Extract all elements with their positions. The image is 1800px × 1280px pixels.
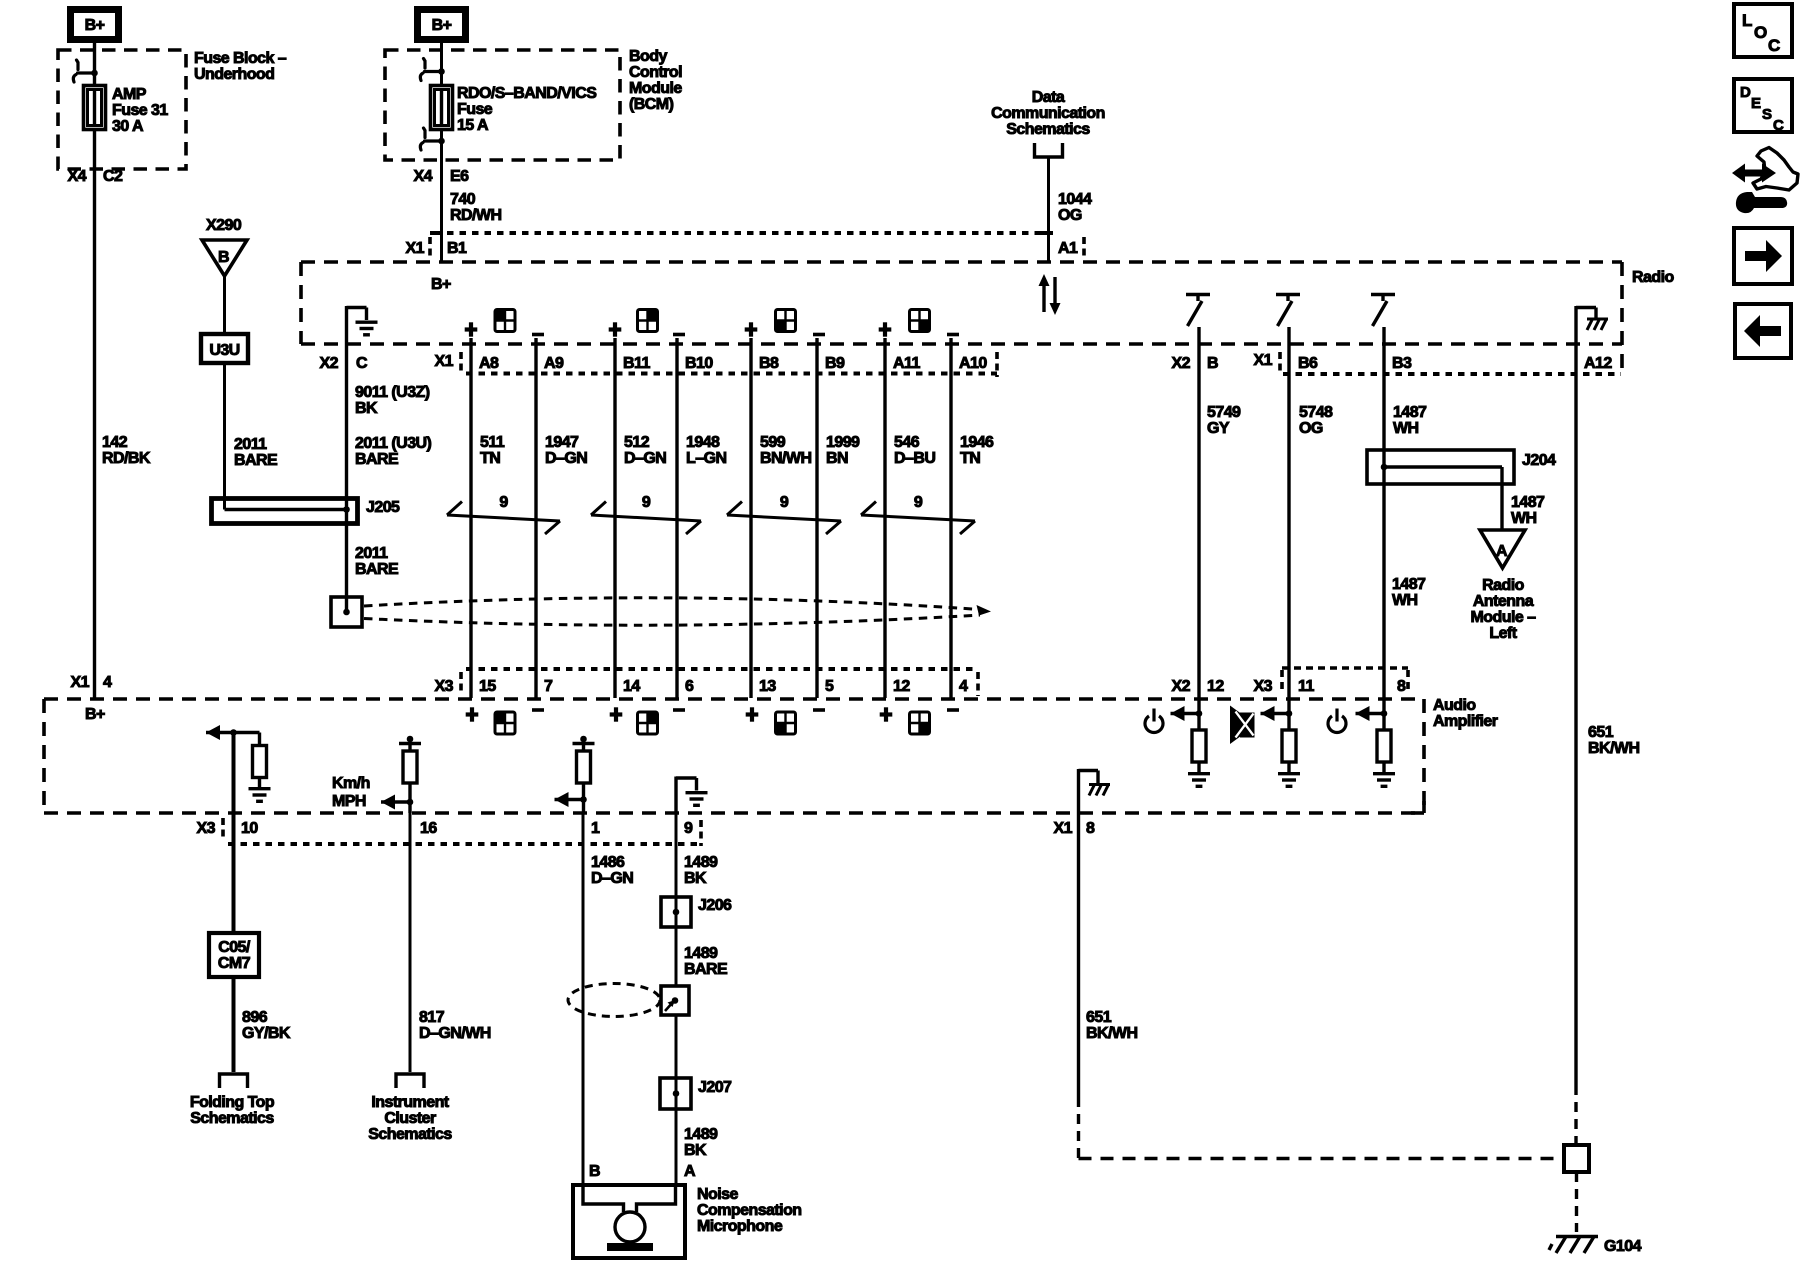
svg-text:BK/WH: BK/WH <box>1588 740 1639 757</box>
svg-text:B6: B6 <box>1298 355 1318 372</box>
svg-text:5: 5 <box>825 678 834 695</box>
svg-text:Fuse: Fuse <box>457 101 493 118</box>
svg-text:A: A <box>1496 543 1508 560</box>
power feed B+ terminal 2 <box>418 10 466 40</box>
label 1487 WH lower <box>1392 576 1426 609</box>
svg-text:Radio: Radio <box>1632 269 1674 286</box>
svg-text:RD/BK: RD/BK <box>102 450 151 467</box>
wire 896 GY/BK <box>232 977 236 1072</box>
wire 511 TN speaker circuit A8 to 15 <box>469 338 472 698</box>
tick at B1 pin <box>430 231 442 235</box>
svg-text:Data: Data <box>1032 89 1065 106</box>
svg-text:E: E <box>1751 95 1761 112</box>
svg-text:1489: 1489 <box>684 945 718 962</box>
svg-text:1489: 1489 <box>684 1126 718 1143</box>
svg-text:X290: X290 <box>206 217 242 234</box>
svg-text:Left: Left <box>1489 625 1517 642</box>
svg-text:B+: B+ <box>432 17 452 34</box>
svg-text:1946: 1946 <box>960 434 994 451</box>
microphone shield ellipse <box>568 984 660 1017</box>
splice J206 <box>661 897 691 927</box>
svg-text:740: 740 <box>450 191 476 208</box>
svg-text:TN: TN <box>960 450 980 467</box>
audio amplifier dashed box <box>44 699 1424 813</box>
svg-text:9: 9 <box>780 494 789 511</box>
svg-text:1486: 1486 <box>591 854 625 871</box>
wire 1999 BN speaker circuit B9 to 5 <box>815 338 818 698</box>
junction dot J204 <box>1381 464 1388 471</box>
svg-text:Module –: Module – <box>1471 609 1537 626</box>
svg-text:B: B <box>1207 355 1218 372</box>
connector label X1 4 top of amp <box>71 674 112 691</box>
off-page bracket instrument cluster <box>396 1074 424 1088</box>
svg-text:L: L <box>1742 11 1752 30</box>
amp X3 dotted connector region 11-8 <box>1282 668 1408 694</box>
svg-text:C05/: C05/ <box>218 939 251 956</box>
svg-text:GY: GY <box>1207 420 1230 437</box>
dashed 651 wire segment right to G104 <box>1079 1157 1563 1160</box>
svg-text:E6: E6 <box>450 168 469 185</box>
svg-text:BN/WH: BN/WH <box>760 450 811 467</box>
wire 817 D-GN/WH pin 16 down <box>409 813 412 1072</box>
radio connector X1 dotted line with B1 <box>447 231 1053 235</box>
svg-text:D–GN: D–GN <box>624 450 666 467</box>
label RDO/S-BAND/VICS Fuse 15 A <box>457 85 597 134</box>
label Folding Top Schematics <box>190 1094 275 1127</box>
svg-text:16: 16 <box>420 820 437 837</box>
wire 2011 BARE from X290 to U3U <box>223 276 226 334</box>
svg-text:X3: X3 <box>1254 678 1273 695</box>
svg-text:X1: X1 <box>1254 352 1273 369</box>
svg-text:X1: X1 <box>406 240 425 257</box>
svg-text:L–GN: L–GN <box>686 450 726 467</box>
wire 5749 GY radio B to amp 12 <box>1197 327 1200 714</box>
svg-text:BARE: BARE <box>355 451 399 468</box>
svg-text:A12: A12 <box>1584 355 1612 372</box>
twisted pair marker 4 <box>861 502 975 535</box>
svg-text:C: C <box>1773 117 1784 134</box>
radio dashed box <box>301 262 1622 376</box>
svg-text:WH: WH <box>1511 510 1537 527</box>
svg-text:Communication: Communication <box>991 105 1105 122</box>
connector label X2 B <box>1172 355 1219 372</box>
connector label X4 E6 <box>414 168 470 185</box>
mic signal arrow pin 1 <box>555 798 584 801</box>
splice pack J205 <box>212 499 358 524</box>
separator A1 <box>1082 237 1086 259</box>
noise compensation microphone box <box>573 1185 685 1258</box>
svg-text:X3: X3 <box>435 678 454 695</box>
wire 9011/2011 from radio C to J205 <box>345 344 348 610</box>
svg-text:B+: B+ <box>85 706 105 723</box>
wire label 1948 L-GN <box>686 434 726 467</box>
shield termination box <box>331 597 362 627</box>
svg-text:U3U: U3U <box>209 342 239 359</box>
svg-text:2011: 2011 <box>234 436 267 453</box>
amp internal B+ output arrow pin 10 <box>206 731 260 734</box>
amp internal resistor pin 16 <box>403 751 417 783</box>
twisted pair marker 3 <box>727 502 841 535</box>
svg-text:A1: A1 <box>1058 240 1078 257</box>
fuse block underhood dashed box <box>58 50 186 169</box>
svg-text:J205: J205 <box>366 499 400 516</box>
svg-text:C: C <box>1768 36 1780 55</box>
wire stub X1-4 into amp <box>93 698 96 700</box>
svg-text:10: 10 <box>241 820 258 837</box>
svg-text:651: 651 <box>1588 724 1614 741</box>
connector label X1 B6 <box>1254 352 1318 372</box>
label 817 D-GN/WH <box>419 1009 491 1042</box>
dashed 651 segment from radio A12 wire <box>1574 1085 1577 1145</box>
label 896 GY/BK <box>242 1009 291 1042</box>
svg-text:S: S <box>1762 106 1772 123</box>
svg-text:G104: G104 <box>1604 1238 1642 1255</box>
svg-text:X4: X4 <box>68 168 87 185</box>
svg-text:B9: B9 <box>825 355 845 372</box>
svg-text:15: 15 <box>479 678 496 695</box>
svg-text:8: 8 <box>1086 820 1095 837</box>
icon box DESC <box>1734 79 1792 134</box>
junction dot at fuse 31 top <box>91 70 98 77</box>
speaker polarity icons pair 2 bottom <box>610 707 623 721</box>
svg-text:RD/WH: RD/WH <box>450 207 501 224</box>
svg-text:512: 512 <box>624 434 650 451</box>
svg-text:X3: X3 <box>197 820 216 837</box>
amp connector X3 dotted line 15-4 <box>466 667 978 671</box>
separator X1 radio bottom <box>459 352 463 373</box>
svg-text:11: 11 <box>1298 678 1314 695</box>
svg-text:J207: J207 <box>698 1079 732 1096</box>
amp internal terminal bar pin 16 <box>399 744 421 752</box>
amp internal arrow and resistor pin at x=1384 <box>1356 712 1385 715</box>
svg-text:30 A: 30 A <box>112 118 144 135</box>
amp internal arrow and resistor pin at x=1199 <box>1171 712 1200 715</box>
svg-text:C2: C2 <box>103 168 123 185</box>
fuse clip terminal top <box>420 59 441 81</box>
svg-text:2011: 2011 <box>355 545 388 562</box>
svg-text:Schematics: Schematics <box>368 1126 452 1143</box>
icon box arrow left <box>1735 304 1791 358</box>
svg-text:1947: 1947 <box>545 434 579 451</box>
svg-text:O: O <box>1754 23 1767 42</box>
speaker polarity icons pair 4 bottom <box>880 707 893 721</box>
svg-text:Control: Control <box>629 64 682 81</box>
twisted pair marker 2 <box>591 502 701 535</box>
svg-text:D–GN: D–GN <box>545 450 587 467</box>
speaker polarity icons pair 3 bottom <box>746 707 759 721</box>
svg-text:12: 12 <box>893 678 910 695</box>
svg-text:X2: X2 <box>1172 678 1191 695</box>
svg-text:Schematics: Schematics <box>1006 121 1090 138</box>
svg-text:5748: 5748 <box>1299 404 1333 421</box>
svg-text:BARE: BARE <box>234 452 278 469</box>
label 1489 BK lower <box>684 1126 718 1159</box>
antenna terminal at radio X2-B <box>1186 295 1210 327</box>
fuse clip terminal <box>73 60 94 82</box>
svg-text:X1: X1 <box>71 674 90 691</box>
speed signal arrow pin 16 <box>381 800 410 803</box>
svg-text:4: 4 <box>959 678 968 695</box>
svg-text:Cluster: Cluster <box>384 1110 436 1127</box>
separator X1/B6 <box>1278 352 1282 373</box>
amp internal resistor at pin 10 <box>258 733 261 746</box>
tick at A1 pin <box>1036 231 1048 235</box>
fuse AMP Fuse 31 30A <box>84 86 106 130</box>
label 1487 WH upper <box>1393 404 1427 437</box>
amp internal ground pin 9 <box>676 777 697 814</box>
svg-text:D–GN/WH: D–GN/WH <box>419 1025 491 1042</box>
svg-text:WH: WH <box>1392 592 1418 609</box>
label 651 BK/WH lower <box>1086 1009 1137 1042</box>
twisted pair marker 1 <box>447 502 560 535</box>
splice J207 <box>660 1078 691 1109</box>
amp box corner patch <box>1411 801 1424 813</box>
separator after pin 9 <box>699 820 703 846</box>
svg-text:817: 817 <box>419 1009 445 1026</box>
svg-text:BK/WH: BK/WH <box>1086 1025 1137 1042</box>
chassis ground G104 <box>1549 1237 1598 1254</box>
option box C05/CM7 <box>209 933 259 977</box>
svg-text:Fuse 31: Fuse 31 <box>112 102 168 119</box>
svg-text:Folding Top: Folding Top <box>190 1094 275 1111</box>
svg-text:Schematics: Schematics <box>190 1110 274 1127</box>
mic pin labels B and A <box>589 1163 696 1180</box>
svg-text:511: 511 <box>480 434 505 451</box>
fuse RDO/S-BAND/VICS 15A <box>431 86 453 130</box>
svg-text:13: 13 <box>759 678 776 695</box>
svg-text:15 A: 15 A <box>457 117 489 134</box>
svg-text:8: 8 <box>1397 678 1406 695</box>
junction dot shield termination <box>343 609 350 616</box>
svg-text:6: 6 <box>685 678 694 695</box>
wire 1487 WH radio B3 to amp 8 <box>1382 327 1385 714</box>
label 1486 D-GN <box>591 854 633 887</box>
svg-text:B1: B1 <box>447 240 467 257</box>
amp bottom dotted connector line <box>228 842 701 846</box>
icon box arrow right <box>1734 228 1792 284</box>
wire 5748 OG radio B6 to amp 11 <box>1287 327 1290 714</box>
speaker polarity icons pair 1 bottom <box>466 707 479 721</box>
speaker polarity icons pair 1 top <box>465 322 478 336</box>
wire pin 10 to C05/CM7 <box>232 733 236 934</box>
svg-text:1044: 1044 <box>1058 191 1092 208</box>
off-page bracket data communication <box>1035 143 1063 157</box>
label Fuse Block - Underhood <box>194 50 287 83</box>
label 1044 OG <box>1058 191 1092 224</box>
svg-text:9: 9 <box>499 494 508 511</box>
svg-text:1999: 1999 <box>826 434 860 451</box>
label 5749 GY <box>1207 404 1241 437</box>
separator X3 amp top <box>459 672 463 694</box>
svg-text:GY/BK: GY/BK <box>242 1025 291 1042</box>
label 740 RD/WH <box>450 191 501 224</box>
separator after pin 4 <box>976 672 980 696</box>
ground symbol resistor x=1289 <box>1278 774 1300 787</box>
svg-text:599: 599 <box>760 434 786 451</box>
svg-text:1487: 1487 <box>1393 404 1427 421</box>
svg-text:D: D <box>1740 84 1751 101</box>
connector label X1 8 bottom <box>1054 820 1095 837</box>
shield arrow <box>977 605 992 616</box>
label Noise Compensation Microphone <box>697 1186 802 1235</box>
svg-text:1948: 1948 <box>686 434 720 451</box>
ground connector box G104 <box>1564 1145 1589 1172</box>
svg-text:1487: 1487 <box>1392 576 1426 593</box>
antenna terminal at radio B3 <box>1371 295 1395 327</box>
wire 1486 D-GN pin 1 to microphone B <box>582 813 585 1186</box>
wire 546 D-BU speaker circuit A11 to 12 <box>883 338 886 698</box>
svg-text:B+: B+ <box>431 276 451 293</box>
separator X1/B1 <box>428 237 432 259</box>
microphone symbol <box>583 1185 676 1242</box>
svg-text:896: 896 <box>242 1009 268 1026</box>
dashed 651 wire segment down <box>1077 1097 1080 1158</box>
option box U3U <box>201 334 248 363</box>
svg-text:1: 1 <box>591 820 600 837</box>
off-page bracket folding top <box>220 1074 248 1088</box>
junction dot pin 10 <box>230 729 237 736</box>
svg-text:X1: X1 <box>1054 820 1073 837</box>
svg-text:Compensation: Compensation <box>697 1202 802 1219</box>
svg-text:X1: X1 <box>435 353 454 370</box>
svg-text:4: 4 <box>103 674 112 691</box>
shield termination box at microphone <box>661 986 689 1015</box>
svg-text:Underhood: Underhood <box>194 66 274 83</box>
amp internal resistor pin 1 <box>577 751 591 783</box>
radio connector X1 dotted line A8-A10 <box>466 372 997 376</box>
svg-text:(BCM): (BCM) <box>629 96 674 113</box>
wire 512 D-GN speaker circuit B11 to 14 <box>613 338 616 698</box>
svg-text:14: 14 <box>623 678 640 695</box>
label Body Control Module (BCM) <box>629 48 682 113</box>
label Audio Amplifier <box>1433 697 1498 730</box>
svg-text:D–BU: D–BU <box>894 450 935 467</box>
antenna terminal at radio X1-B6 <box>1276 295 1300 327</box>
wire 1948 L-GN speaker circuit B10 to 6 <box>675 338 678 698</box>
label 1487 WH at J204 branch <box>1511 494 1545 527</box>
svg-text:BARE: BARE <box>355 561 399 578</box>
wire label 1947 D-GN <box>545 434 587 467</box>
svg-text:Fuse Block –: Fuse Block – <box>194 50 287 67</box>
wire 599 BN/WH speaker circuit B8 to 13 <box>749 338 752 698</box>
svg-text:OG: OG <box>1299 420 1323 437</box>
label 1489 BK upper <box>684 854 718 887</box>
label 651 BK/WH right <box>1588 724 1639 757</box>
wire label 1946 TN <box>960 434 994 467</box>
label Km/h MPH <box>332 775 370 810</box>
svg-text:B: B <box>589 1163 600 1180</box>
svg-text:B10: B10 <box>685 355 713 372</box>
svg-text:B: B <box>218 249 229 266</box>
icon hand with double arrow <box>1732 148 1798 214</box>
label Radio Antenna Module - Left <box>1471 577 1537 642</box>
connector label X3 11 <box>1254 678 1315 695</box>
svg-text:Body: Body <box>629 48 667 65</box>
svg-text:Antenna: Antenna <box>1473 593 1534 610</box>
svg-text:OG: OG <box>1058 207 1082 224</box>
connector label X2 C <box>320 355 368 372</box>
svg-text:C: C <box>356 355 368 372</box>
icon box LOC <box>1734 4 1792 57</box>
svg-text:BK: BK <box>355 400 378 417</box>
svg-text:J204: J204 <box>1522 452 1556 469</box>
wire 142 RD/BK from B+ through fuse down to amplifier X1-4 <box>93 43 96 698</box>
wire label 546 D-BU <box>894 434 935 467</box>
svg-text:A11: A11 <box>893 355 920 372</box>
connector label X2 12 <box>1172 678 1225 695</box>
svg-text:B11: B11 <box>623 355 650 372</box>
svg-text:B8: B8 <box>759 355 779 372</box>
svg-text:A: A <box>684 1163 696 1180</box>
wire label 512 D-GN <box>624 434 666 467</box>
svg-text:142: 142 <box>102 434 128 451</box>
serial data up/down arrows <box>1044 277 1055 312</box>
svg-text:9011 (U3Z): 9011 (U3Z) <box>355 384 430 401</box>
connector X290 triangle B <box>202 240 247 276</box>
svg-text:9: 9 <box>642 494 651 511</box>
label 142 RD/BK <box>102 434 151 467</box>
svg-text:A10: A10 <box>959 355 987 372</box>
ground symbol resistor x=1384 <box>1373 774 1395 787</box>
junction dot RDO fuse top <box>438 68 445 75</box>
amp internal ground at X1-8 <box>1079 769 1099 813</box>
shield ellipse around speaker wires <box>364 598 980 625</box>
svg-text:X4: X4 <box>414 168 433 185</box>
svg-text:MPH: MPH <box>332 793 366 810</box>
power feed B+ terminal 1 <box>71 10 119 40</box>
svg-text:7: 7 <box>544 678 553 695</box>
power symbol at pin 12 <box>1145 709 1163 733</box>
body control module dashed box <box>385 50 620 160</box>
label 9011 (U3Z) BK <box>355 384 430 417</box>
svg-text:A9: A9 <box>544 355 564 372</box>
svg-text:A8: A8 <box>479 355 499 372</box>
wire 2011 BARE from U3U to J205 <box>223 363 226 508</box>
svg-text:5749: 5749 <box>1207 404 1241 421</box>
label 2011 BARE left <box>234 436 278 469</box>
svg-text:BK: BK <box>684 1142 707 1159</box>
svg-text:CM7: CM7 <box>218 955 251 972</box>
fuse clip terminal bottom <box>420 128 441 150</box>
svg-text:Noise: Noise <box>697 1186 738 1203</box>
muted speaker icon at pin 11 <box>1230 706 1255 745</box>
svg-text:B3: B3 <box>1392 355 1412 372</box>
speaker polarity icons pair 3 top <box>745 322 758 336</box>
svg-text:Module: Module <box>629 80 682 97</box>
wire 651 BK/WH from radio A12 <box>1574 344 1577 1085</box>
svg-text:Instrument: Instrument <box>371 1094 449 1111</box>
shield drain arrow <box>665 1000 675 1011</box>
svg-text:AMP: AMP <box>112 86 147 103</box>
label Instrument Cluster Schematics <box>368 1094 452 1143</box>
label 1489 BARE <box>684 945 728 978</box>
junction dot J205 <box>343 506 350 513</box>
svg-text:BN: BN <box>826 450 848 467</box>
separator after A10 <box>995 352 999 377</box>
amp internal arrow and resistor pin at x=1289 <box>1261 712 1290 715</box>
wire 1947 D-GN speaker circuit A9 to 7 <box>534 338 537 698</box>
label Data Communication Schematics <box>991 89 1105 138</box>
svg-text:TN: TN <box>480 450 500 467</box>
svg-text:Km/h: Km/h <box>332 775 370 792</box>
svg-text:Microphone: Microphone <box>697 1218 783 1235</box>
wire 651 BK/WH from amp 8 <box>1077 813 1080 1097</box>
svg-text:D–GN: D–GN <box>591 870 633 887</box>
svg-text:X2: X2 <box>320 355 339 372</box>
amp bottom connector labels X3 10 <box>197 820 259 837</box>
power symbol at pin 8 <box>1328 709 1346 733</box>
wire 1946 TN speaker circuit A10 to 4 <box>949 338 952 698</box>
